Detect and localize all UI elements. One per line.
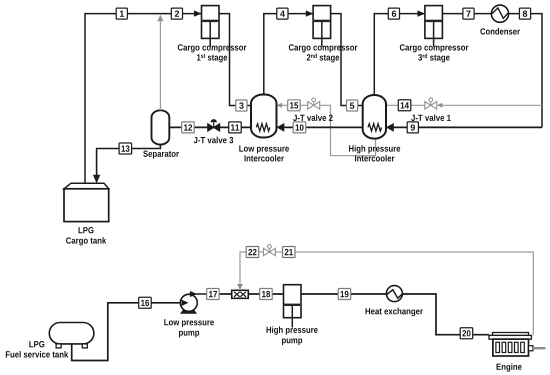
wire: fuel tank outlet to low pressure pump xyxy=(72,303,180,361)
gray arrow down into mixer xyxy=(237,284,243,290)
node box 21 xyxy=(283,247,296,258)
arrow into compressor 3 xyxy=(418,10,426,16)
node box 5 xyxy=(347,100,358,111)
node box 11 xyxy=(229,122,242,133)
wire: compressor 1 outlet to box 3 / LP intercooler xyxy=(219,14,251,106)
gray vapor return: mixer up through boxes 22/21 to engine xyxy=(240,252,246,286)
node box 2 xyxy=(171,8,182,19)
label compressor 2 xyxy=(289,44,358,62)
node box 16 xyxy=(139,297,152,308)
high pressure pump xyxy=(284,285,302,328)
wire: HP coil to LP coil xyxy=(284,126,363,128)
condenser xyxy=(491,5,508,22)
label J-T valve 1 xyxy=(411,114,451,121)
label HP intercooler xyxy=(349,145,400,161)
mixer xyxy=(232,290,249,298)
label separator xyxy=(143,151,179,159)
gray line box 21 to engine top xyxy=(295,252,533,335)
main condensate line y=127.4 xyxy=(387,126,543,128)
node box 13 xyxy=(119,143,132,154)
node box 7 xyxy=(463,8,474,19)
wire: tank vapor riser to top header xyxy=(85,14,201,184)
label high pressure pump xyxy=(267,326,318,345)
node box 4 xyxy=(277,8,288,19)
wire: LP coil to separator via J-T valve 3 xyxy=(169,126,251,128)
label compressor 3 xyxy=(400,44,469,62)
node box 1 xyxy=(116,8,127,19)
label LPG fuel service tank xyxy=(6,341,68,358)
wire: separator bottom to cargo tank xyxy=(97,145,161,177)
wire: compressor 2 outlet to box 5 / HP intercooler xyxy=(331,14,363,106)
gray separator vapor line xyxy=(159,16,161,111)
node box 8 xyxy=(519,8,530,19)
wire: pump outlet through mixer to HP pump xyxy=(207,293,284,295)
wire: compressor 3 outlet to condenser to right riser xyxy=(442,13,491,15)
arrow into HP intercooler coil xyxy=(386,123,394,132)
label heat exchanger xyxy=(366,308,423,316)
J-T valve 3 xyxy=(208,119,220,131)
label J-T valve 2 xyxy=(293,114,333,121)
valve between 22 and 21 xyxy=(263,245,275,256)
label condenser xyxy=(480,28,520,35)
gray J-T valve 1 line from riser xyxy=(441,104,542,106)
wire: HP pump to heat exchanger to box 20 xyxy=(301,293,386,295)
node box 17 xyxy=(207,289,220,300)
node box 15 xyxy=(288,100,301,111)
node box 3 xyxy=(236,100,247,111)
node box 19 xyxy=(338,289,351,300)
node box 6 xyxy=(388,8,399,19)
label J-T valve 3 xyxy=(194,137,234,144)
arrow into compressor 2 xyxy=(306,10,314,16)
LPG cargo tank xyxy=(64,183,109,221)
gray arrow up into header xyxy=(157,15,163,22)
low pressure pump xyxy=(180,291,207,314)
compressor stage 1 xyxy=(202,6,220,47)
wire: LP intercooler top to compressor 2 xyxy=(264,14,313,95)
arrow into compressor 1 xyxy=(194,10,202,16)
LP intercooler vessel xyxy=(251,95,277,138)
node box 18 xyxy=(260,289,273,300)
heat exchanger xyxy=(386,286,402,302)
node box 22 xyxy=(246,247,259,258)
node box 20 xyxy=(460,328,473,339)
label compressor 1 xyxy=(178,44,247,62)
node box 14 xyxy=(398,100,411,111)
label LP intercooler xyxy=(239,145,289,161)
gray arrow into J-T valve 1 xyxy=(437,103,443,108)
LPG fuel service tank xyxy=(49,323,94,348)
engine xyxy=(489,333,546,357)
label engine xyxy=(497,363,522,371)
gray J-T valve 2 loop from HP intercooler bottom xyxy=(320,105,376,155)
node box 9 xyxy=(407,122,418,133)
node box 10 xyxy=(293,122,306,133)
node box 12 xyxy=(182,122,195,133)
label LPG cargo tank xyxy=(66,227,106,245)
compressor stage 2 xyxy=(313,6,331,47)
separator vessel xyxy=(152,110,170,144)
arrow into cargo tank xyxy=(93,175,100,184)
compressor stage 3 xyxy=(425,6,443,47)
gray arrow into LP intercooler xyxy=(277,103,283,108)
wire: HP intercooler top to compressor 3 xyxy=(374,14,425,95)
label low pressure pump xyxy=(164,319,214,337)
J-T valve 2 xyxy=(308,98,320,109)
HP intercooler vessel xyxy=(363,95,386,139)
arrow into LP intercooler coil xyxy=(277,123,285,132)
gray line box22 to valve to box 21 xyxy=(259,251,264,253)
J-T valve 1 xyxy=(425,98,437,109)
